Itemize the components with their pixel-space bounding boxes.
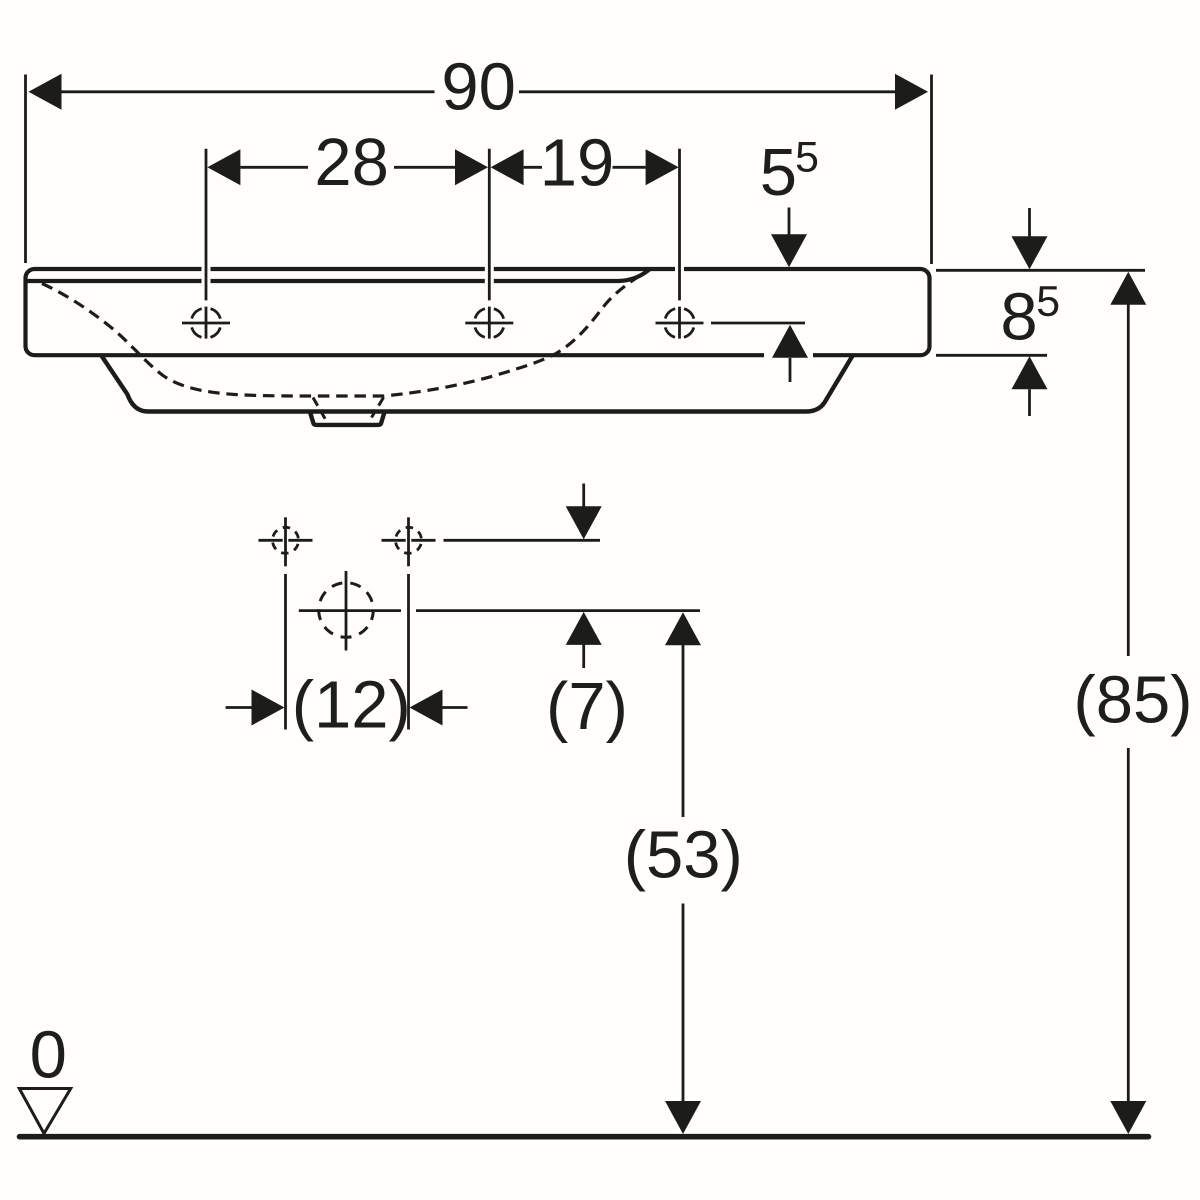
svg-text:(12): (12) — [292, 668, 411, 743]
svg-text:8: 8 — [1000, 280, 1037, 355]
svg-text:5: 5 — [1036, 278, 1060, 326]
svg-text:5: 5 — [760, 135, 797, 210]
svg-text:90: 90 — [441, 50, 516, 125]
svg-text:(7): (7) — [546, 669, 628, 744]
svg-text:0: 0 — [30, 1018, 67, 1093]
svg-text:28: 28 — [314, 125, 389, 200]
svg-text:5: 5 — [795, 134, 819, 182]
svg-text:(53): (53) — [624, 818, 743, 893]
svg-text:19: 19 — [540, 126, 615, 201]
svg-text:(85): (85) — [1073, 663, 1192, 738]
